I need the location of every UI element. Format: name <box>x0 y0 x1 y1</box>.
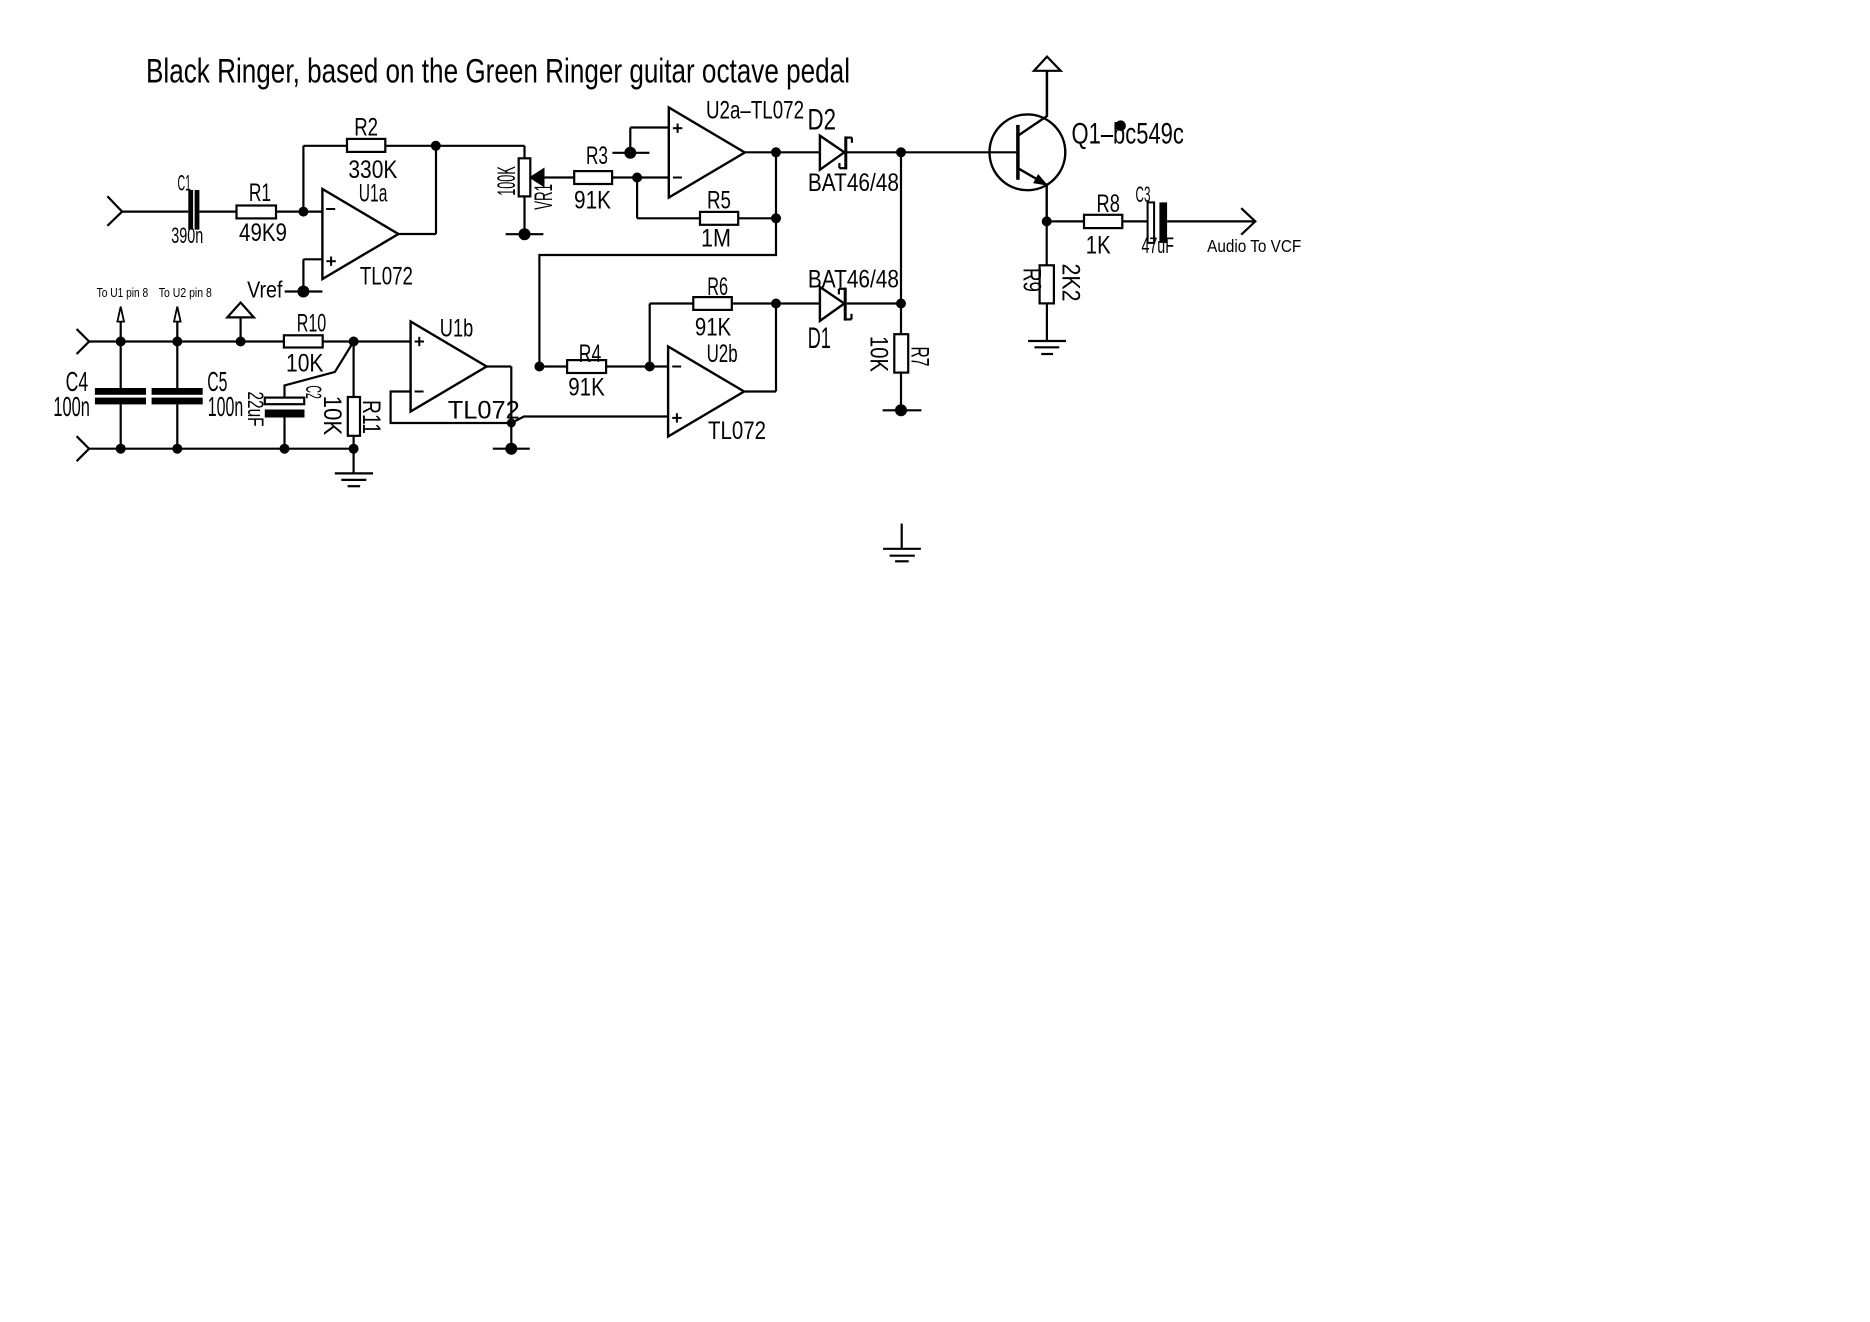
value 1M <box>701 225 731 253</box>
wire from upper section down to R4 <box>539 218 776 366</box>
wire VR1 bottom to Vref tap <box>523 196 525 234</box>
wire R7 bottom lead <box>900 373 902 411</box>
node junction at U2a- <box>632 173 642 183</box>
wire R10 to U1b plus <box>323 340 411 342</box>
svg-text:100n: 100n <box>53 391 90 422</box>
U2a minus marker <box>673 177 682 179</box>
wire R11 top lead <box>353 342 355 398</box>
node junction emitter <box>1042 216 1052 226</box>
wire output column vertical <box>775 152 777 218</box>
svg-text:100n: 100n <box>208 391 243 422</box>
svg-text:10K: 10K <box>865 336 893 372</box>
value 91K of R3 <box>574 187 611 215</box>
D2 schottky cathode bar <box>839 136 852 169</box>
input connector chevron IN1 <box>107 196 122 226</box>
svg-text:100K: 100K <box>493 166 521 196</box>
svg-text:R9: R9 <box>1018 268 1046 292</box>
rail A wire <box>89 340 284 342</box>
node junction R2 output <box>431 141 441 151</box>
wire R4 to U2b minus <box>606 365 668 367</box>
resistor R5 <box>700 212 738 225</box>
ground under R9 <box>1028 303 1066 354</box>
stray dot in Q1 label <box>1115 120 1126 131</box>
label R2 <box>354 114 378 142</box>
wire R4 left lead <box>539 365 567 367</box>
svg-text:U1a: U1a <box>359 180 388 208</box>
svg-text:BAT46/48: BAT46/48 <box>808 169 899 197</box>
node junction U2a output <box>771 147 781 157</box>
label R4 <box>579 340 601 368</box>
svg-text:49K9: 49K9 <box>239 219 287 247</box>
label U1b <box>440 315 473 343</box>
ground symbol detached <box>883 524 921 562</box>
wire C5 leads <box>176 342 178 449</box>
label R7 <box>905 347 933 367</box>
wire R2 to VR1 top <box>385 146 524 159</box>
svg-text:R6: R6 <box>707 273 728 301</box>
wire R11 bottom lead <box>353 436 355 449</box>
rail B wire <box>89 448 354 450</box>
node junction R6/D1 <box>771 299 781 309</box>
resistor R8 <box>1084 215 1122 228</box>
wire U1a output up <box>398 146 436 234</box>
node junction at U1a- <box>298 207 308 217</box>
svg-text:TL072: TL072 <box>360 262 413 290</box>
svg-text:Black Ringer, based on the Gre: Black Ringer, based on the Green Ringer … <box>146 53 850 91</box>
Vref tap stub at U1a <box>285 290 323 292</box>
value 10K of R7 <box>865 336 893 372</box>
wire D1 to R7 node <box>847 302 901 304</box>
svg-text:D1: D1 <box>808 322 831 355</box>
input connector chevron IN3 <box>77 436 90 461</box>
value 10K of R10 <box>286 350 324 378</box>
svg-text:1K: 1K <box>1086 232 1111 260</box>
svg-text:1M: 1M <box>701 225 731 253</box>
value 2K2 <box>1057 264 1085 302</box>
op-amp U1b triangle <box>411 322 487 412</box>
VR1 wiper arrow <box>531 169 544 185</box>
U1a plus marker <box>326 257 335 266</box>
node junction R5/output column <box>771 213 781 223</box>
svg-text:R8: R8 <box>1097 190 1120 218</box>
label TL072 of U2b <box>708 417 766 445</box>
svg-text:390n: 390n <box>171 223 203 248</box>
Vref tap stub at R7 <box>883 409 922 411</box>
label U2a-TL072 <box>706 97 804 125</box>
value 330K <box>348 156 397 184</box>
Vref tap dot at U2a <box>624 147 636 159</box>
wire D2 to base node <box>847 151 1018 153</box>
wire IN1 to C1 <box>122 211 188 213</box>
svg-text:U1b: U1b <box>440 315 473 343</box>
svg-text:U2b: U2b <box>707 340 738 368</box>
svg-text:47uF: 47uF <box>1141 233 1174 258</box>
label R10 <box>297 309 327 337</box>
value 47uF <box>1141 233 1174 258</box>
svg-text:22uF: 22uF <box>243 392 268 427</box>
label VR1 <box>530 184 558 210</box>
svg-text:TL072: TL072 <box>708 417 766 445</box>
junction R11 bottom <box>349 444 359 454</box>
label Q1-bc549c <box>1072 118 1184 151</box>
label U1a <box>359 180 388 208</box>
junction C5 top <box>172 337 182 347</box>
svg-text:R10: R10 <box>297 309 327 337</box>
wire U2b output up <box>744 304 776 392</box>
resistor R2 <box>347 139 385 152</box>
resistor R3 <box>574 171 612 184</box>
Vref tap dot at VR1 <box>519 228 531 240</box>
value 22uF <box>243 392 268 427</box>
label R11 <box>357 400 385 434</box>
node junction R4 right <box>645 362 655 372</box>
svg-text:91K: 91K <box>568 374 605 402</box>
label R9 <box>1018 268 1046 292</box>
wire U2a plus input to Vref tap <box>630 128 669 153</box>
label R1 <box>249 179 271 207</box>
node junction R10 right <box>349 337 359 347</box>
Q1 collector <box>1018 71 1047 136</box>
junction C2 bottom <box>280 444 290 454</box>
resistor R11 <box>348 397 360 436</box>
U1b minus marker <box>415 391 424 393</box>
wire R9 top lead <box>1046 221 1048 265</box>
op-amp U2a triangle <box>669 108 745 198</box>
capacitor C1 <box>188 190 199 230</box>
svg-text:C1: C1 <box>178 171 192 196</box>
value 100n of C5 <box>208 391 243 422</box>
supply arrow to U1 pin 8 <box>117 307 124 342</box>
label C5 <box>207 366 227 397</box>
svg-text:R3: R3 <box>586 142 608 170</box>
U2a plus marker <box>673 124 682 133</box>
wire C4 leads <box>120 342 122 449</box>
svg-text:Audio To VCF: Audio To VCF <box>1207 236 1301 256</box>
label 100K of VR1 <box>493 166 521 196</box>
output arrow head <box>1241 208 1255 235</box>
value 91K of R4 <box>568 374 605 402</box>
value 10K of R11 <box>318 396 346 436</box>
wire emitter node to R8 <box>1047 220 1084 222</box>
svg-text:VR1: VR1 <box>530 184 558 210</box>
svg-text:D2: D2 <box>808 104 837 137</box>
svg-text:Q1–bc549c: Q1–bc549c <box>1072 118 1184 151</box>
input connector chevron IN2 <box>77 329 90 354</box>
U2b plus marker <box>672 413 681 422</box>
potentiometer VR1 body <box>519 158 531 196</box>
svg-text:C3: C3 <box>1136 182 1151 207</box>
Q1 base bar <box>1016 125 1020 180</box>
resistor R4 <box>567 360 606 373</box>
junction C5 bottom <box>172 444 182 454</box>
capacitor C3 electrolytic <box>1148 202 1168 243</box>
label TL072 of U1a <box>360 262 413 290</box>
op-amp U1a triangle <box>322 189 398 279</box>
Vref tap dot at U1b <box>505 443 517 455</box>
node junction D1/R7 <box>896 299 906 309</box>
svg-text:U2a–TL072: U2a–TL072 <box>706 97 804 125</box>
Q1 emitter <box>1018 168 1047 221</box>
label To U2 pin 8 <box>159 286 212 300</box>
svg-text:BAT46/48: BAT46/48 <box>808 266 899 294</box>
wire U1b feedback loop <box>391 392 512 424</box>
capacitor C5 <box>152 388 203 404</box>
wire jog to U2b plus <box>511 417 668 424</box>
label To U1 pin 8 <box>97 286 149 300</box>
label C2 <box>301 385 326 398</box>
supply arrow to U2 pin 8 <box>174 307 181 342</box>
wire to D1 <box>776 302 820 304</box>
wire R7 top lead <box>900 304 902 335</box>
power arrow above Q1 <box>1034 57 1061 117</box>
svg-text:R5: R5 <box>707 187 731 215</box>
svg-text:R2: R2 <box>354 114 378 142</box>
value 91K of R6 <box>695 313 732 341</box>
svg-text:2K2: 2K2 <box>1057 264 1085 302</box>
label R6 <box>707 273 728 301</box>
label Audio To VCF <box>1207 236 1301 256</box>
wire R8 to C3 <box>1122 220 1147 222</box>
ground under R11 <box>335 449 373 487</box>
resistor R7 <box>894 334 908 372</box>
label C1 <box>178 171 192 196</box>
label D1 <box>808 322 831 355</box>
svg-text:R1: R1 <box>249 179 271 207</box>
node junction R4 left <box>534 362 544 372</box>
wire C2 bottom <box>283 418 285 449</box>
wire VR1 wiper to R3 <box>544 176 575 178</box>
Vref tap stub at U2a <box>612 152 649 154</box>
U2b minus marker <box>672 366 681 368</box>
Vref tap dot <box>297 286 309 298</box>
wire U1a plus input to Vref tap <box>303 259 322 291</box>
label R5 <box>707 187 731 215</box>
wire C3 to output arrow <box>1167 220 1255 222</box>
svg-text:91K: 91K <box>695 313 732 341</box>
capacitor C2 electrolytic <box>265 398 305 418</box>
op-amp U2b triangle <box>668 347 744 437</box>
label TL072 of U1b <box>448 396 520 424</box>
power arrow symbol on rail A <box>227 303 254 342</box>
wire R1 to U1a inverting input <box>276 211 322 213</box>
svg-text:R11: R11 <box>357 400 385 434</box>
svg-text:To U2 pin 8: To U2 pin 8 <box>159 286 212 300</box>
diode D2 triangle <box>820 136 844 170</box>
junction C4 top <box>116 337 126 347</box>
label C3 <box>1136 182 1151 207</box>
svg-text:91K: 91K <box>574 187 611 215</box>
wire R3 to U2a inverting input <box>612 176 669 178</box>
wire node up to R2 <box>303 146 347 212</box>
wire R6 right lead <box>732 302 776 304</box>
value 390n <box>171 223 203 248</box>
label R8 <box>1097 190 1120 218</box>
Vref tap stub at VR1 <box>506 233 544 235</box>
label Vref <box>247 276 283 302</box>
value 100n of C4 <box>53 391 90 422</box>
resistor R10 <box>284 335 323 347</box>
Vref tap dot at R7 <box>895 404 907 416</box>
value BAT46/48 of D2 <box>808 169 899 197</box>
wire C1 to R1 <box>199 211 236 213</box>
value BAT46/48 of D1 <box>808 266 899 294</box>
svg-text:10K: 10K <box>286 350 324 378</box>
label C4 <box>66 366 89 397</box>
wire node up to R6 <box>650 304 694 367</box>
wire U1b output <box>487 367 512 449</box>
wire node down to R5 <box>637 178 700 219</box>
U1b plus marker <box>415 337 424 346</box>
svg-text:R4: R4 <box>579 340 601 368</box>
value 1K <box>1086 232 1111 260</box>
wire R5 to output node <box>738 217 776 219</box>
wire U2a output to D2 <box>745 151 820 153</box>
title text <box>146 53 850 91</box>
node junction U1b feedback <box>507 419 516 428</box>
svg-text:10K: 10K <box>318 396 346 436</box>
junction C4 bottom <box>116 444 126 454</box>
svg-text:R7: R7 <box>905 347 933 367</box>
node junction after D2 <box>896 147 906 157</box>
resistor R9 <box>1040 265 1054 303</box>
label R3 <box>586 142 608 170</box>
capacitor C4 <box>95 388 146 404</box>
diode D1 triangle <box>820 287 844 321</box>
D1 schottky cathode bar <box>839 288 852 321</box>
wire diagonal node to C2 <box>285 342 354 398</box>
wire node5 down to D1 node <box>900 152 902 303</box>
Vref tap stub at U1b <box>493 448 530 450</box>
label U2b <box>707 340 738 368</box>
label D2 <box>808 104 837 137</box>
svg-text:Vref: Vref <box>247 276 283 302</box>
transistor Q1 circle <box>990 114 1066 190</box>
svg-text:To U1 pin 8: To U1 pin 8 <box>97 286 149 300</box>
U1a minus marker <box>326 208 335 210</box>
junction power arrow <box>236 337 246 347</box>
resistor R1 <box>237 206 277 219</box>
resistor R6 <box>693 297 732 310</box>
value 49K9 <box>239 219 287 247</box>
